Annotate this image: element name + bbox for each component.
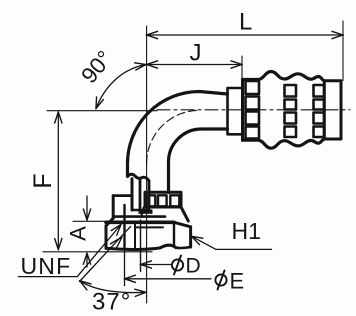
vertical centerline of elbow port xyxy=(146,26,148,303)
A lower arrow segment xyxy=(86,253,88,267)
sleeve left wall xyxy=(131,179,134,210)
nut section top edge xyxy=(113,194,132,197)
phi symbol of phi D xyxy=(172,259,183,270)
svg-text:UNF: UNF xyxy=(21,253,72,279)
J right extension line xyxy=(241,56,243,79)
svg-text:90°: 90° xyxy=(76,46,117,88)
H1 leader xyxy=(192,236,272,249)
hex top edge xyxy=(106,221,174,225)
elbow tube outer wall xyxy=(128,92,228,177)
svg-text:E: E xyxy=(230,269,245,294)
phi E extension line xyxy=(124,248,126,285)
svg-text:J: J xyxy=(190,40,202,67)
phi D extension line xyxy=(140,220,142,272)
ferrule socket left edge xyxy=(241,80,244,141)
sleeve right wall xyxy=(139,179,142,211)
ferrule outer profile bottom xyxy=(243,139,325,148)
90 degree arc xyxy=(96,65,146,109)
nut knurled band xyxy=(145,192,181,207)
svg-text:37°: 37° xyxy=(92,289,131,316)
A top extension line xyxy=(73,220,106,222)
crimp serration column 1 xyxy=(246,81,260,94)
hex right edge xyxy=(189,227,192,247)
svg-text:H1: H1 xyxy=(232,218,261,244)
crimp serration column 2 xyxy=(285,85,297,97)
svg-text:F: F xyxy=(29,173,57,188)
horizontal hose axis centerline xyxy=(157,109,350,111)
A upper arrow segment xyxy=(86,196,88,220)
F dimension line xyxy=(57,112,59,250)
elbow tube inner wall xyxy=(169,129,228,193)
sleeve outer right wall xyxy=(148,181,151,210)
thread major line xyxy=(134,222,136,249)
L right extension line xyxy=(342,21,344,81)
37 degree arc xyxy=(80,281,146,293)
phi D dimension line xyxy=(141,264,172,266)
seat cone construction line xyxy=(80,227,131,282)
ferrule end cap xyxy=(324,81,341,139)
tube break squiggle xyxy=(128,174,149,180)
hex left edge xyxy=(105,226,108,249)
hex bottom front arc xyxy=(106,245,176,249)
L dimension line xyxy=(147,34,343,36)
flare seat line xyxy=(136,226,163,228)
nut cone left xyxy=(141,207,144,217)
nut mid line xyxy=(114,215,165,218)
thread bore line xyxy=(123,205,125,248)
nut left slant xyxy=(106,218,113,226)
sleeve bottom xyxy=(132,209,149,212)
J dimension line xyxy=(147,64,242,66)
nut left wall xyxy=(112,196,115,219)
UNF leader arrow xyxy=(78,225,122,277)
bottom face extension line xyxy=(43,251,152,253)
ferrule outer profile top xyxy=(243,72,325,81)
hex top right corner slant xyxy=(174,222,191,227)
svg-text:L: L xyxy=(239,9,252,36)
svg-text:A: A xyxy=(65,226,90,241)
phi symbol of phi E xyxy=(215,274,226,285)
UNF underline xyxy=(19,276,78,278)
sleeve foot bar xyxy=(139,210,153,214)
horizontal axis extension line (F top) xyxy=(47,110,157,112)
hex corner vertical xyxy=(173,222,175,246)
nut cone right xyxy=(181,207,188,221)
seat line arrowhead at hex corner xyxy=(110,237,122,249)
collar between elbow and socket xyxy=(228,88,243,134)
bend centerline arc xyxy=(147,110,200,163)
hex bottom right arc xyxy=(176,247,191,248)
phi E dimension line xyxy=(125,278,212,280)
crimp serration column 3 xyxy=(314,85,325,97)
svg-text:D: D xyxy=(186,255,201,278)
